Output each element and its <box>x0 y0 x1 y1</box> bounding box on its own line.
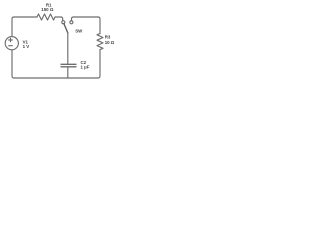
svg-text:1 µF: 1 µF <box>81 65 90 70</box>
svg-text:10 Ω: 10 Ω <box>105 40 115 45</box>
svg-text:SW: SW <box>75 29 83 34</box>
svg-text:150 Ω: 150 Ω <box>41 7 54 12</box>
svg-text:R3: R3 <box>105 35 111 40</box>
svg-text:1 V: 1 V <box>23 44 30 49</box>
